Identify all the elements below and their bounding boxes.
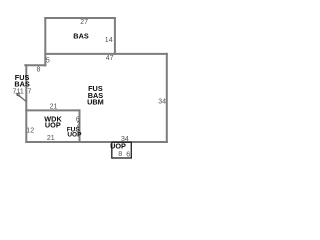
svg-text:UBM: UBM (87, 98, 104, 107)
wall: west wall lower vertical (25, 65, 27, 142)
svg-text:5: 5 (46, 57, 50, 64)
wall: west wall upper (BAS left + 5ft segment) (44, 18, 46, 66)
svg-text:6: 6 (126, 151, 130, 158)
wall: 8ft jog at y66 (25, 64, 45, 66)
porch UOP rect bottom (112, 142, 132, 158)
wall: deck WDK right edge (79, 110, 81, 142)
svg-text:47: 47 (106, 55, 114, 62)
svg-text:14: 14 (105, 37, 113, 44)
wall: deck WDK top edge (26, 109, 79, 111)
svg-text:8: 8 (118, 151, 122, 158)
svg-text:BAS: BAS (14, 80, 30, 89)
svg-text:12: 12 (26, 127, 34, 134)
wall: main rect top edge (45, 53, 167, 55)
wall: main/deck bottom edge (26, 141, 167, 143)
svg-text:21: 21 (50, 103, 58, 110)
svg-text:4: 4 (17, 92, 21, 99)
svg-text:BAS: BAS (73, 32, 89, 41)
svg-text:27: 27 (80, 19, 88, 26)
wall: top BAS rect top edge (45, 17, 115, 19)
wall: main rect right edge (166, 54, 168, 142)
svg-text:UOP: UOP (45, 121, 61, 130)
wall: top BAS rect right edge (114, 18, 116, 54)
svg-text:2: 2 (77, 122, 81, 129)
svg-text:34: 34 (121, 136, 129, 143)
wall: bay diagonal (16, 93, 26, 101)
svg-text:UOP: UOP (67, 132, 82, 139)
svg-text:21: 21 (47, 135, 55, 142)
svg-text:8: 8 (37, 66, 41, 73)
svg-text:34: 34 (158, 98, 166, 105)
svg-text:7: 7 (27, 89, 31, 96)
